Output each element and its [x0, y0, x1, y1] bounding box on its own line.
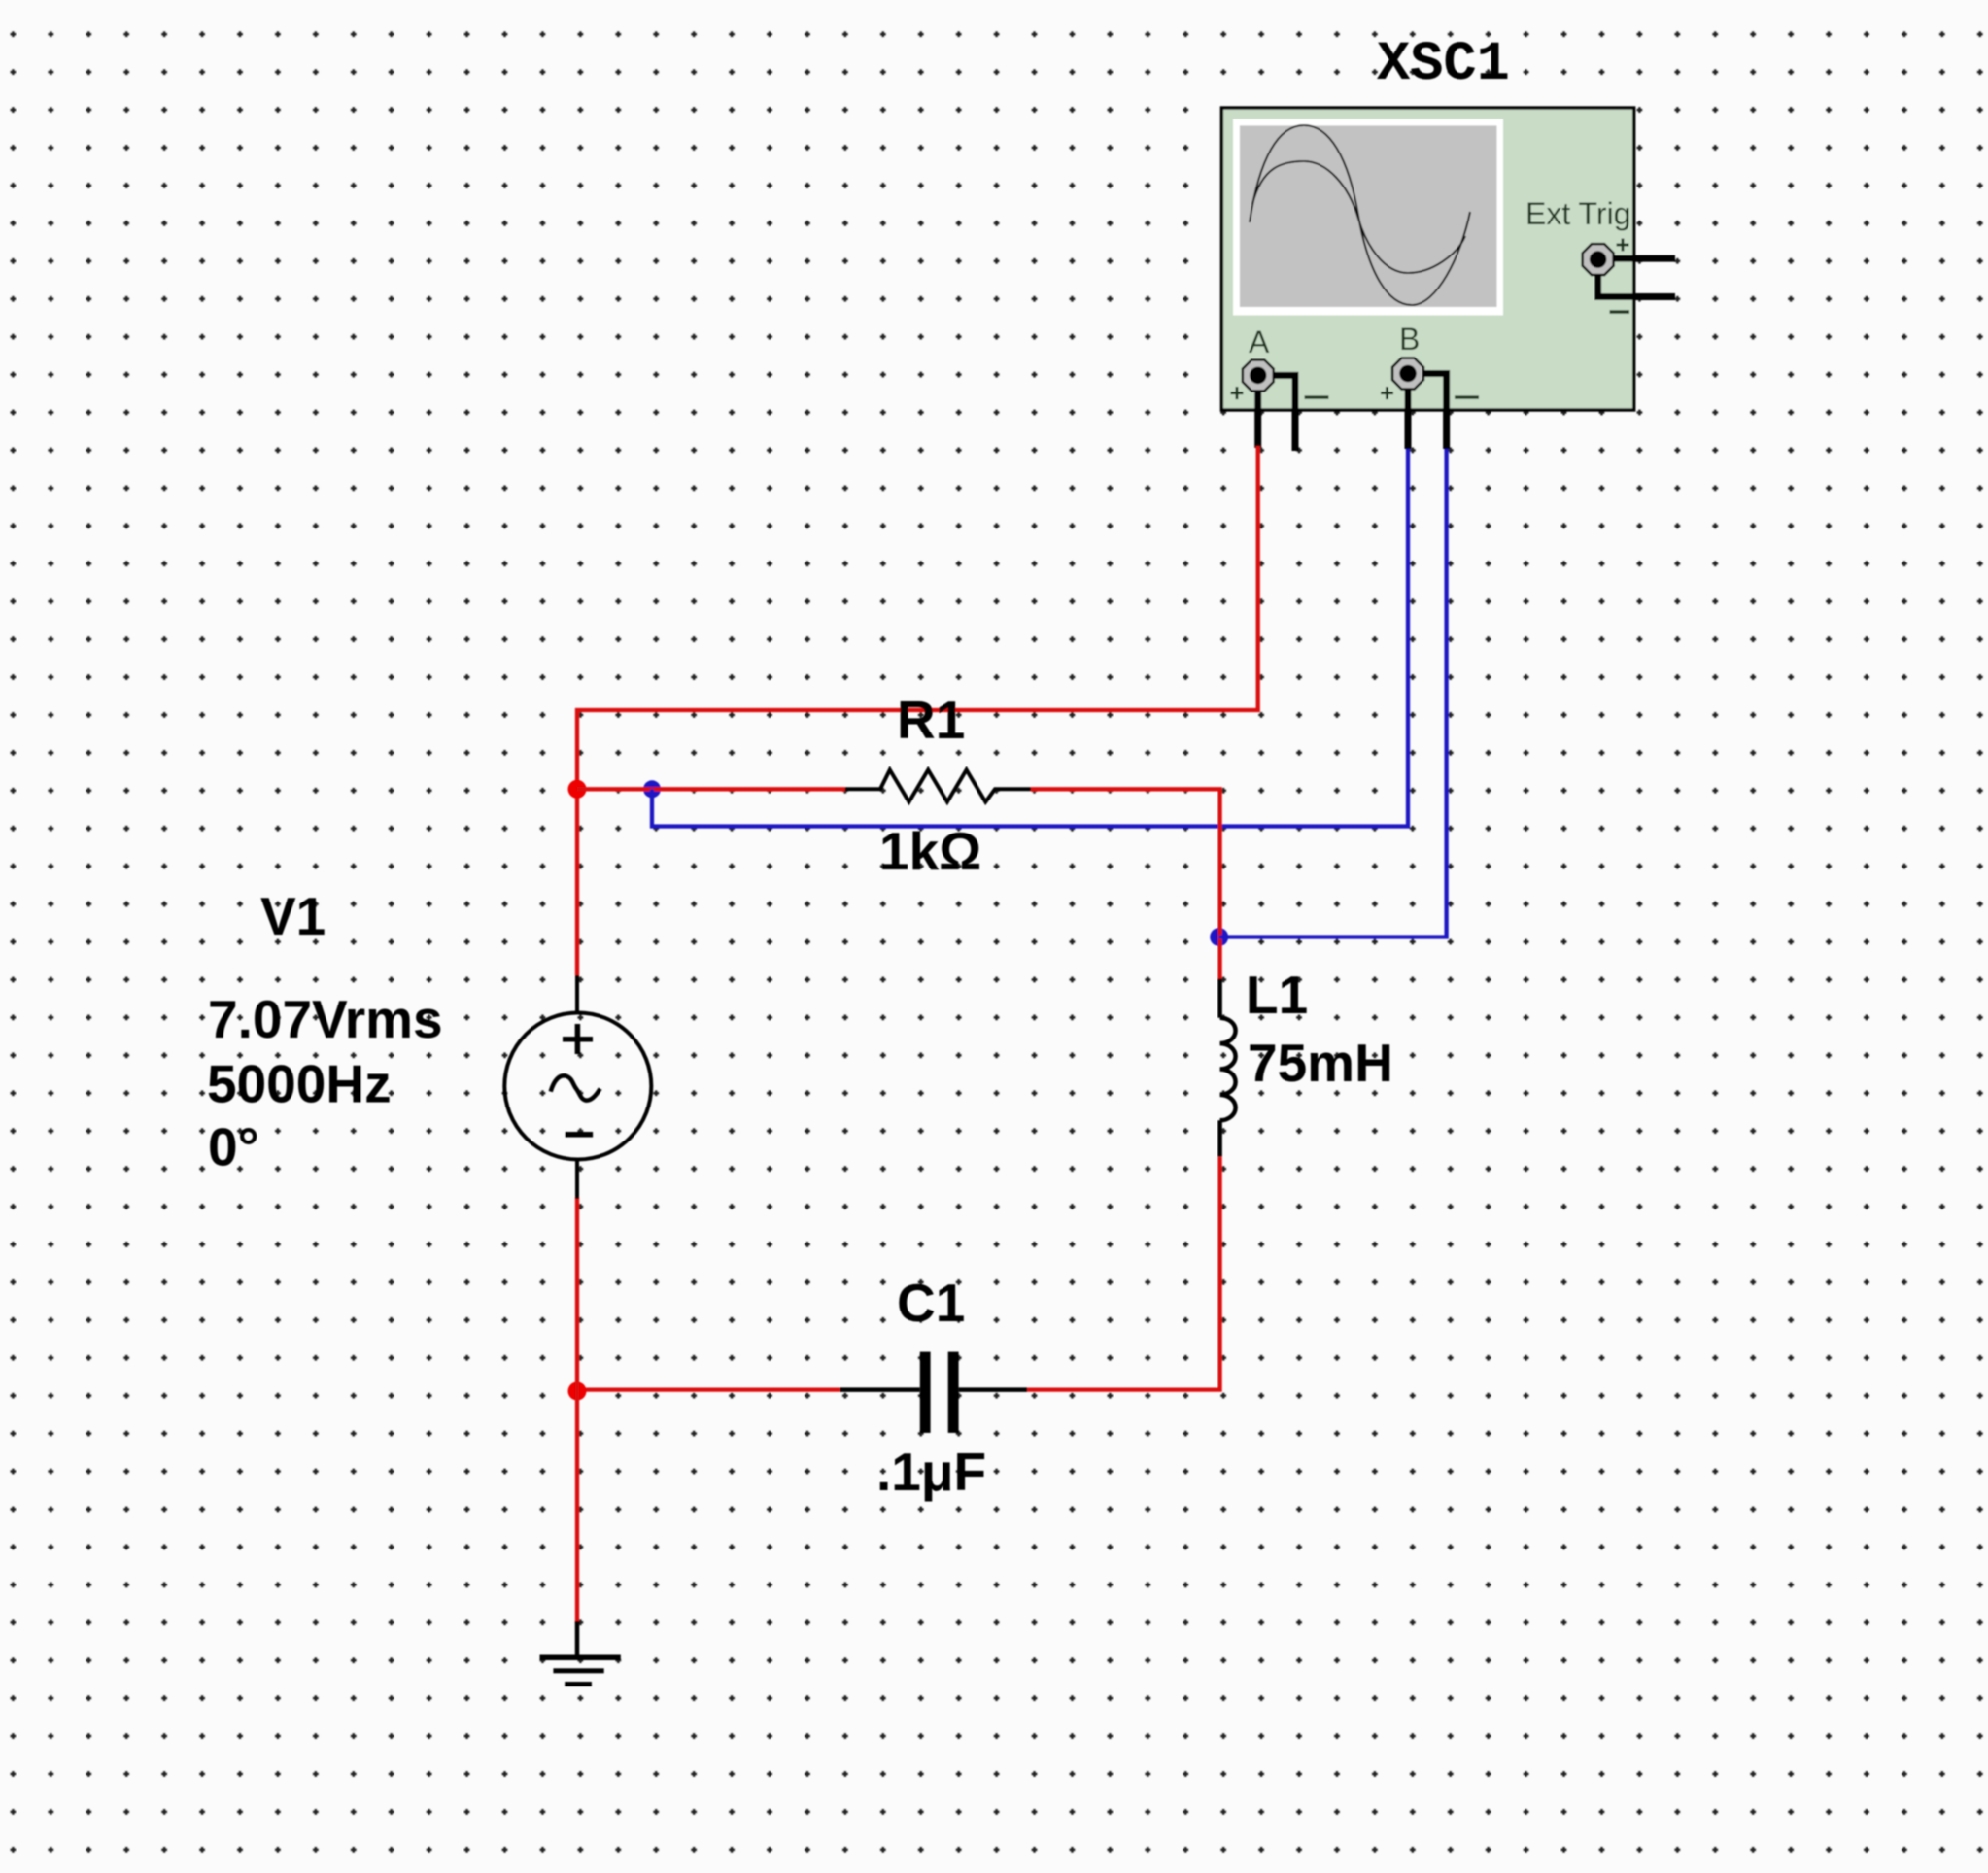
- node 4 junction (red): [568, 1382, 587, 1401]
- wire: XSC1 A- stub (black, open end): [1263, 375, 1295, 451]
- svg-text:5000Hz: 5000Hz: [207, 1054, 392, 1114]
- wire: XSC1 B+ stub (black): [1405, 366, 1412, 449]
- svg-text:B: B: [1399, 322, 1420, 357]
- wire: node 2 to B+ (blue): [652, 449, 1408, 827]
- svg-text:L1: L1: [1246, 965, 1308, 1025]
- capacitor C1: [840, 1352, 1027, 1433]
- svg-text:.1μF: .1μF: [876, 1442, 986, 1502]
- wire: Ext Trig + stub: [1605, 255, 1675, 262]
- wire: Ext Trig - stub: [1598, 268, 1675, 297]
- XSC1 waveform channel A (large sine): [1250, 125, 1470, 305]
- wire: node 3 to B- (blue): [1219, 449, 1447, 937]
- node 1 junction (red): [568, 780, 587, 799]
- svg-text:Ext Trig: Ext Trig: [1525, 196, 1630, 231]
- B - mark: [1455, 395, 1479, 398]
- wire: V1 bottom to node 4 (red): [575, 1197, 579, 1390]
- XSC1 screen frame: [1233, 119, 1503, 316]
- Ext Trig + mark: [1617, 239, 1629, 252]
- resistor R1: [845, 770, 1031, 802]
- inductor L1: [1220, 979, 1236, 1157]
- wire: XSC1 A+ stub (black): [1254, 368, 1261, 448]
- wire: L1 bottom to C1 right (red): [1027, 1157, 1219, 1390]
- wire: R1 right to L1 top (red): [1031, 789, 1220, 978]
- wire: C1 left to node 4 (red): [577, 1387, 840, 1391]
- wire: node 4 to ground (red): [575, 1390, 579, 1623]
- AC voltage source V1: [504, 975, 651, 1199]
- svg-text:C1: C1: [897, 1273, 965, 1333]
- svg-text:7.07Vrms: 7.07Vrms: [208, 989, 443, 1049]
- terminal: channel A: [1243, 360, 1274, 392]
- ground: [540, 1621, 621, 1686]
- svg-text:V1: V1: [260, 886, 326, 946]
- svg-text:1kΩ: 1kΩ: [879, 821, 981, 881]
- B + mark: [1381, 387, 1393, 399]
- wire: node 1 to R1 left (red): [577, 787, 845, 791]
- svg-text:R1: R1: [897, 690, 965, 750]
- svg-text:XSC1: XSC1: [1377, 34, 1510, 96]
- node 2 junction (blue, on red wire): [643, 780, 661, 798]
- oscilloscope XSC1 body: [1221, 108, 1633, 410]
- svg-text:0°: 0°: [208, 1117, 259, 1177]
- A + mark: [1231, 387, 1244, 399]
- svg-text:A: A: [1249, 324, 1270, 359]
- node 3 junction (blue, on red wire): [1210, 928, 1228, 946]
- Ext Trig - mark: [1610, 310, 1630, 313]
- A - mark: [1305, 395, 1329, 398]
- terminal: Ext Trig: [1583, 244, 1614, 275]
- XSC1 screen: [1240, 125, 1497, 307]
- wire: A+ red net (down, left, down to node 1): [577, 446, 1258, 975]
- XSC1 waveform channel B (small sine): [1252, 161, 1465, 273]
- wire: XSC1 B- stub (black): [1414, 374, 1447, 450]
- terminal: channel B: [1392, 358, 1423, 390]
- svg-text:75mH: 75mH: [1248, 1033, 1393, 1093]
